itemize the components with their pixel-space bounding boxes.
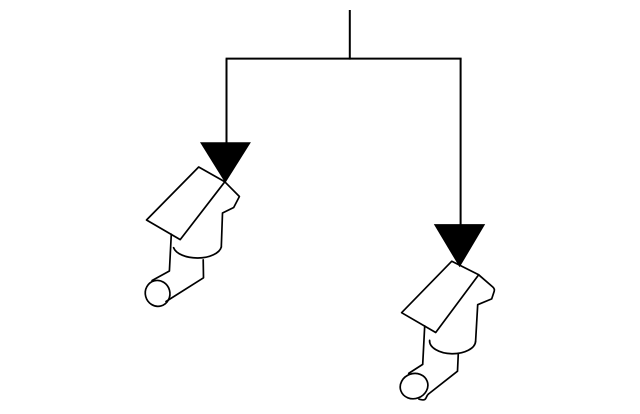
left foot ellipse bbox=[142, 278, 172, 309]
right foot lip bbox=[419, 394, 429, 400]
left body left edge bbox=[152, 234, 171, 280]
left body shoulder bbox=[221, 182, 239, 247]
wire right drop bbox=[460, 59, 462, 228]
right body left edge bbox=[409, 326, 425, 373]
right flange bbox=[402, 261, 479, 332]
wire left drop bbox=[226, 59, 228, 146]
wire top vertical bbox=[349, 10, 351, 60]
part right bbox=[397, 261, 495, 402]
part left bbox=[142, 167, 239, 309]
left flange bbox=[147, 167, 225, 240]
right foot ellipse bbox=[397, 370, 432, 403]
right cylinder bottom arc bbox=[430, 340, 476, 353]
right foot right edge bbox=[429, 353, 459, 394]
left foot right edge bbox=[166, 260, 204, 302]
right body shoulder bbox=[476, 275, 495, 342]
left cylinder bottom arc bbox=[174, 247, 222, 258]
arrow right bbox=[434, 224, 485, 267]
arrow left bbox=[200, 142, 251, 183]
wire horizontal bbox=[226, 58, 462, 60]
